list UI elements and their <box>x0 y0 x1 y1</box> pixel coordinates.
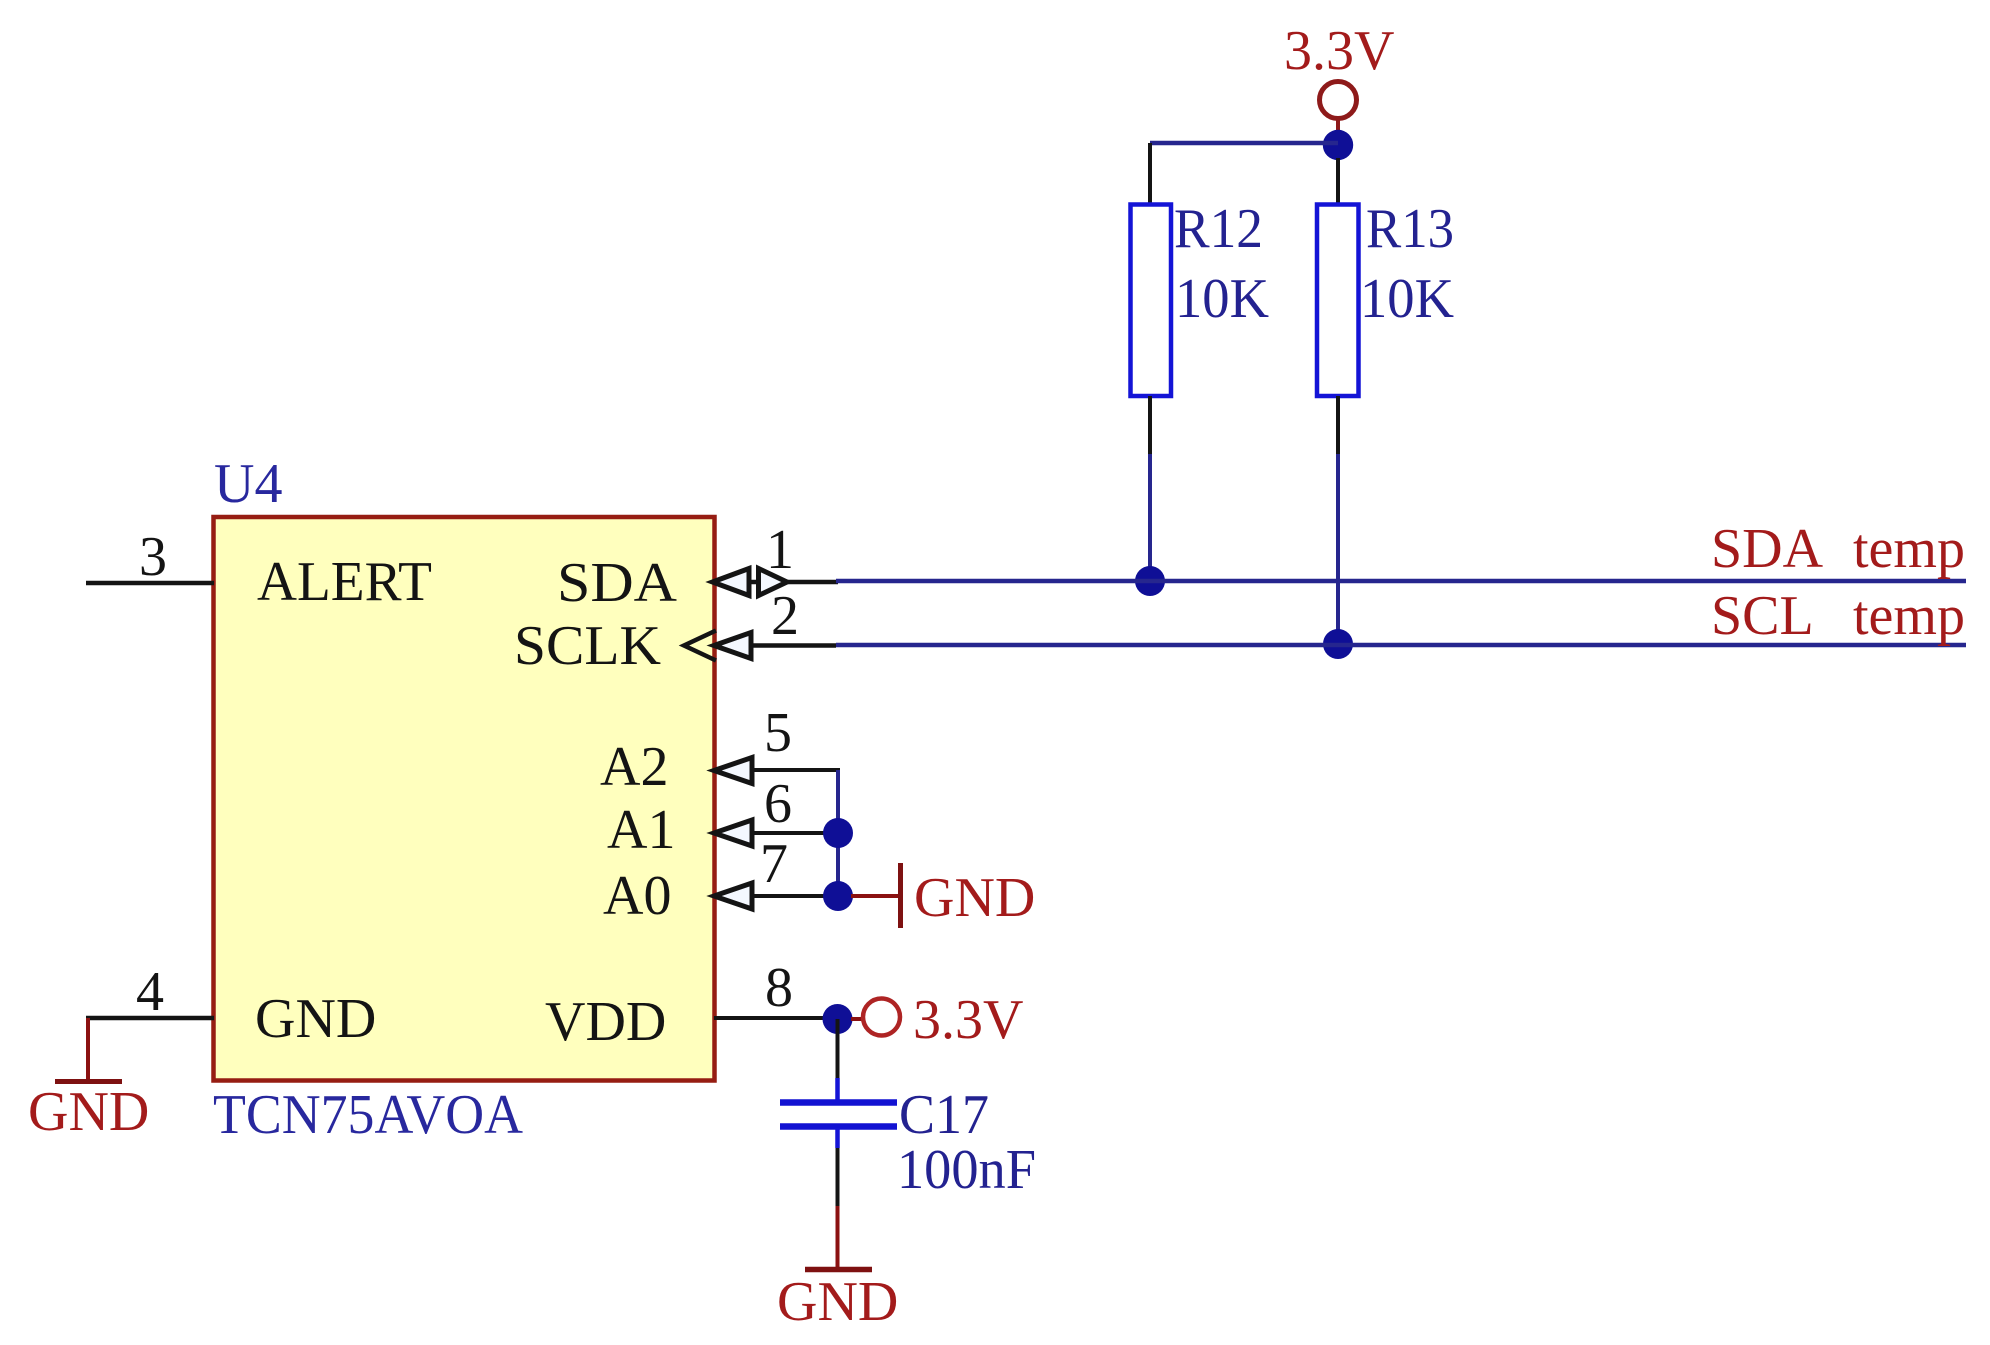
svg-text:U4: U4 <box>214 453 282 515</box>
junction dot R12/SDA <box>1135 566 1165 596</box>
ground symbol bar (A0) <box>898 863 903 928</box>
wire SDA net (blue) <box>836 579 1966 584</box>
svg-text:ALERT: ALERT <box>257 551 432 613</box>
power port 3.3V circle (top) <box>1320 82 1357 119</box>
svg-text:C17: C17 <box>899 1084 989 1146</box>
svg-text:GND: GND <box>777 1271 898 1333</box>
wire R12 bottom pin (black) <box>1148 396 1152 454</box>
wire 3.3V rail horizontal <box>1150 141 1338 146</box>
svg-text:temp: temp <box>1853 585 1965 647</box>
resistor R13 body <box>1317 205 1359 397</box>
svg-text:3: 3 <box>139 526 167 588</box>
wire A2-A1-A0 vertical (blue) <box>836 770 840 896</box>
pin 4 wire (GND) <box>86 1016 214 1021</box>
pin 2 clock chevron <box>684 631 716 661</box>
pin 8 wire (VDD) <box>714 1016 838 1020</box>
wire R13 bottom pin (black) <box>1336 396 1340 454</box>
junction dot VDD <box>823 1004 853 1034</box>
wire A0 to GND (dark red) <box>851 894 898 898</box>
pin 2 SCLK input arrow <box>714 633 751 659</box>
svg-text:SCL: SCL <box>1711 585 1814 647</box>
pin 6 wire <box>752 831 838 835</box>
capacitor C17 top plate <box>780 1099 897 1106</box>
pin 1 pin line under arrows <box>713 580 787 585</box>
svg-text:A0: A0 <box>603 865 671 927</box>
svg-text:GND: GND <box>28 1081 149 1143</box>
svg-text:R13: R13 <box>1366 198 1454 260</box>
svg-text:3.3V: 3.3V <box>1284 20 1394 82</box>
ground symbol bar (C17) <box>805 1267 872 1273</box>
pin 6 A1 input arrow <box>714 820 752 846</box>
pin 1 wire (black) <box>787 580 838 585</box>
svg-text:3.3V: 3.3V <box>913 989 1023 1051</box>
wire R12 to SDA net (blue) <box>1148 454 1152 581</box>
IC U4 body <box>214 517 715 1081</box>
capacitor C17 bottom lead (blue) <box>835 1128 840 1148</box>
svg-text:7: 7 <box>760 833 788 895</box>
pin 5 A2 input arrow <box>714 758 752 784</box>
junction dot at 3.3V rail <box>1323 130 1353 160</box>
wire to ground bar (dark red) <box>836 1206 840 1267</box>
svg-text:GND: GND <box>255 988 376 1050</box>
svg-text:R12: R12 <box>1174 198 1263 260</box>
svg-text:4: 4 <box>136 961 164 1023</box>
wire SCL net (blue) <box>836 643 1966 648</box>
pin 1 SDA bidirectional arrow left <box>713 569 750 596</box>
svg-text:VDD: VDD <box>545 991 666 1053</box>
wire C17 to ground (black) <box>836 1148 840 1206</box>
wire VDD down to C17 (black) <box>836 1019 840 1081</box>
wire R13 top pin <box>1336 158 1340 206</box>
svg-text:A1: A1 <box>607 799 675 861</box>
svg-text:8: 8 <box>765 957 793 1019</box>
capacitor C17 top lead (blue) <box>835 1078 840 1101</box>
resistor R12 body <box>1131 205 1172 397</box>
svg-text:temp: temp <box>1853 518 1965 580</box>
wire stub to 3.3V circle (red) <box>851 1017 863 1021</box>
svg-text:SDA: SDA <box>1711 518 1824 580</box>
power port 3.3V circle (VDD) <box>863 999 900 1036</box>
junction dot A0 <box>823 881 853 911</box>
pin 3 wire (ALERT) <box>86 581 214 586</box>
svg-text:5: 5 <box>764 702 792 764</box>
pin 7 A0 input arrow <box>714 883 752 909</box>
svg-text:100nF: 100nF <box>897 1139 1036 1201</box>
ground symbol bar (pin 4) <box>55 1079 122 1084</box>
svg-text:SCLK: SCLK <box>514 615 661 677</box>
svg-text:10K: 10K <box>1360 268 1454 330</box>
wire R13 to SCL net (blue) <box>1336 454 1340 644</box>
pin 1 SDA bidirectional arrow right <box>759 569 788 596</box>
svg-text:10K: 10K <box>1175 268 1269 330</box>
svg-text:GND: GND <box>914 867 1035 929</box>
svg-text:TCN75AVOA: TCN75AVOA <box>213 1084 524 1146</box>
capacitor C17 bottom plate <box>780 1123 897 1130</box>
wire pin4 down to ground (dark red) <box>86 1018 90 1079</box>
junction dot R13/SCL <box>1323 629 1353 659</box>
pin 5 wire <box>752 768 840 772</box>
svg-text:2: 2 <box>771 585 799 647</box>
svg-text:6: 6 <box>764 773 792 835</box>
junction dot A1 <box>823 818 853 848</box>
wire stub circle to junction <box>1336 119 1340 133</box>
wire R12 top pin <box>1148 143 1152 206</box>
pin 7 wire <box>752 894 838 898</box>
svg-text:SDA: SDA <box>557 552 678 614</box>
svg-text:A2: A2 <box>600 736 668 798</box>
pin 2 wire (black) <box>751 643 836 648</box>
